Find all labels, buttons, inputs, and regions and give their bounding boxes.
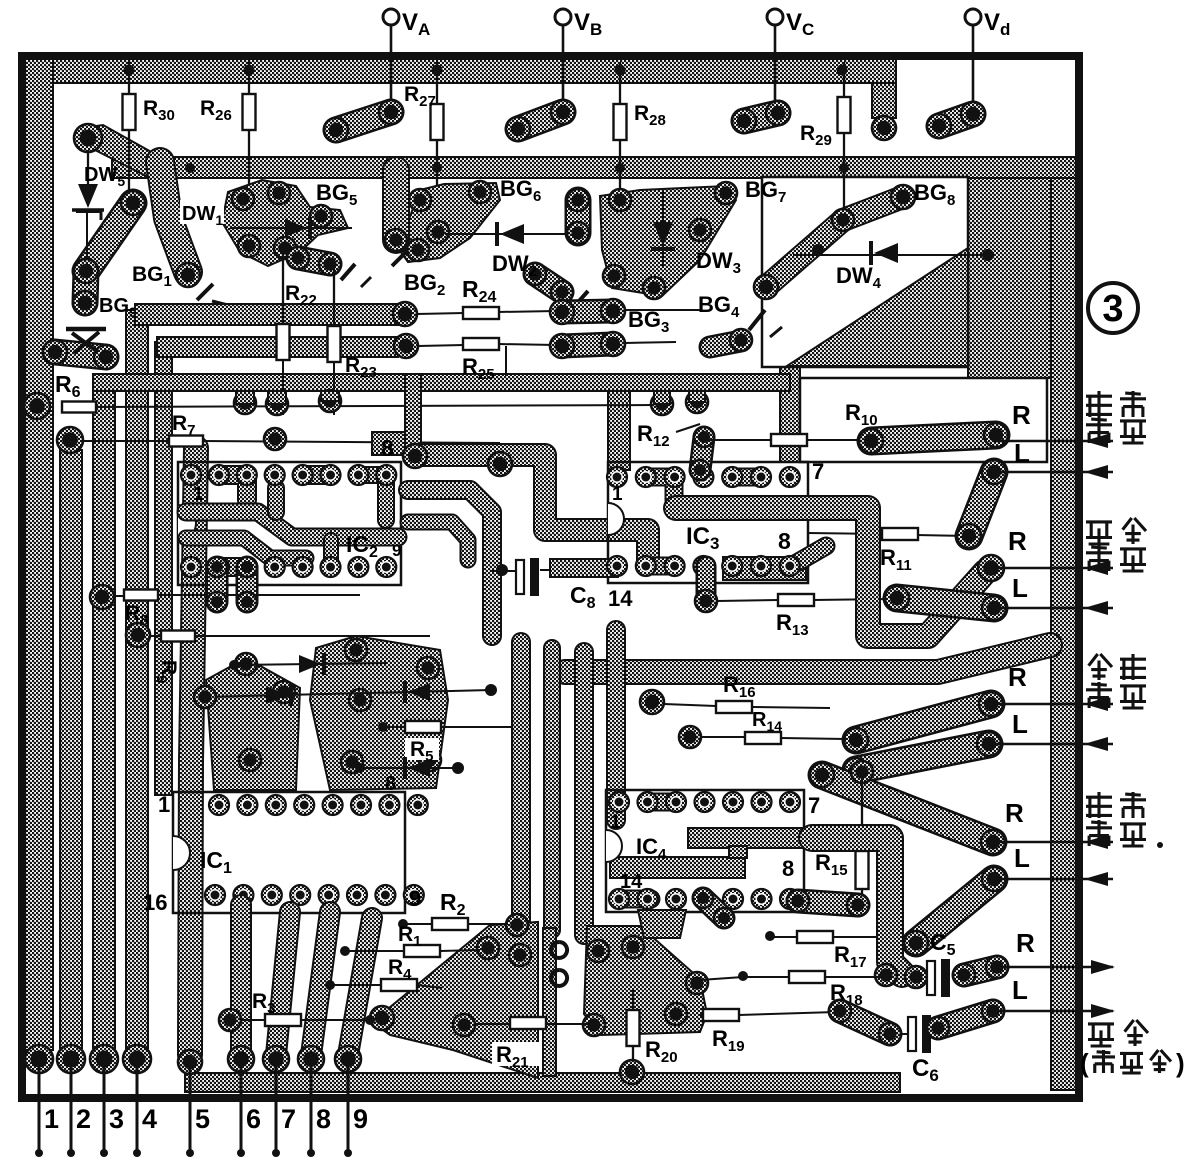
- diode DW1 symbol: [230, 227, 352, 229]
- copper pour bottom-right blob: [584, 926, 707, 1035]
- diode row 2 left: [205, 690, 491, 697]
- node pad R7 mid: [264, 428, 286, 450]
- wire stub traces above IC2: [236, 391, 254, 404]
- wire dog-bone row B right: [562, 344, 613, 346]
- wire input arrow record L: [994, 465, 1113, 479]
- wire bus pin2 vertical: [60, 450, 82, 1048]
- svg-text:4: 4: [142, 1104, 157, 1134]
- node pads on power rail: [185, 163, 195, 173]
- resistor R11: [808, 533, 884, 534]
- wire wide column right of IC2: [405, 374, 421, 457]
- wire ground band step-down at right end: [872, 83, 896, 118]
- wire rail column down to IC3 pin1: [608, 391, 630, 470]
- svg-text:8: 8: [778, 528, 791, 554]
- svg-text:14: 14: [608, 586, 633, 611]
- node pads above IC2: [234, 392, 256, 414]
- wire rail diagonal from pad to band: [82, 125, 162, 177]
- node pads in left pour: [370, 1006, 394, 1030]
- wire rail row A: [135, 304, 398, 325]
- label DW1: [180, 200, 224, 224]
- op-amp IC1 top pads: [209, 795, 229, 815]
- resistor R29: [838, 97, 851, 133]
- svg-text:L: L: [1014, 843, 1030, 873]
- resistor R4: [330, 984, 381, 986]
- wire IC2 stub pad11: [323, 540, 339, 562]
- wire trace C8 to IC3 pin14: [550, 559, 618, 577]
- node pad R6 on ground band: [24, 393, 50, 419]
- wire dog-bone phono L: [916, 879, 994, 943]
- wire bus mid vertical: [155, 342, 172, 795]
- wire bus pin4 vertical: [126, 310, 148, 1048]
- wire dog-bone VA: [336, 112, 391, 130]
- wire rail row B: [157, 337, 398, 357]
- capacitor C6: [908, 1015, 931, 1053]
- wire stubs above IC3: [654, 391, 670, 404]
- resistor R21: [476, 1023, 510, 1025]
- node pads in BG5 blob: [409, 189, 431, 211]
- node pads in left blob: [235, 653, 257, 675]
- node pads in BG7 blob: [609, 189, 631, 211]
- resistor R27: [431, 104, 444, 140]
- svg-text:9: 9: [409, 886, 421, 911]
- wire dog-bone below R15: [798, 901, 858, 905]
- wire input arrow phono R: [993, 835, 1113, 849]
- svg-text:2: 2: [76, 1104, 91, 1134]
- svg-text:1: 1: [44, 1104, 59, 1134]
- copper pour right blob above IC1: [310, 636, 448, 790]
- svg-text:9: 9: [392, 541, 401, 560]
- svg-text:L: L: [1012, 975, 1028, 1005]
- white component box around BG8/DW4: [762, 177, 968, 367]
- wire elbow trace IC3 to AM-R pad: [676, 508, 985, 636]
- svg-text:L: L: [1012, 709, 1028, 739]
- label AM input (Chinese): [1086, 522, 1112, 544]
- node pads in DW1 blob: [232, 188, 254, 210]
- svg-text:R: R: [1008, 526, 1027, 556]
- wire dog-bone row A right: [562, 311, 613, 312]
- wire thick R7 trace: [372, 432, 420, 455]
- transistor BG3 symbol: [572, 291, 588, 309]
- diode row 1: [234, 663, 388, 665]
- resistor R3: [225, 1019, 266, 1021]
- node pad BG1 right: [176, 263, 200, 287]
- label output (Chinese): [1088, 1024, 1114, 1046]
- wire center column 4: [606, 630, 626, 820]
- node pads in right pour: [587, 940, 609, 962]
- wire center column 1: [511, 642, 531, 920]
- resistor R1: [345, 950, 405, 952]
- node pads at C5 elbow: [875, 964, 897, 986]
- svg-text:7: 7: [281, 1104, 296, 1134]
- wire IC3 pin8 diagonal: [793, 546, 826, 565]
- wire dog-bone record R: [871, 435, 996, 441]
- resistor R10: [706, 439, 772, 441]
- svg-text:8: 8: [381, 435, 394, 461]
- diode DW3 symbol: [662, 192, 664, 268]
- wire dog-bone R12: [700, 437, 704, 470]
- wire dog-bone BG1: [86, 203, 133, 271]
- resistor R24: [417, 313, 464, 314]
- wire dog-bone record L: [969, 472, 994, 536]
- transistor BG2 tick: [341, 264, 355, 280]
- wire dog-bone R16 left: [640, 690, 664, 714]
- resistor R25: [418, 345, 464, 346]
- wire dog-bone BG4 link: [710, 341, 741, 347]
- node pad bus2 top: [57, 427, 83, 453]
- op-amp IC2 top pads: [181, 465, 201, 485]
- wire dog-bone output R: [964, 967, 997, 975]
- wire output arrow L: [993, 1004, 1115, 1018]
- resistor R8: [124, 590, 158, 601]
- wire IC2 staircase trace 1: [186, 512, 398, 537]
- power rail band VB-VD (horizontal): [112, 157, 1076, 178]
- resistor R23: [328, 326, 341, 362]
- label 3 in circle: [1088, 283, 1138, 333]
- svg-text:1: 1: [610, 812, 621, 833]
- wire horizontal trace to right bus: [565, 645, 1050, 672]
- svg-text:8: 8: [316, 1104, 331, 1134]
- svg-text:1: 1: [158, 792, 170, 817]
- op-amp IC4 top pads: [609, 792, 629, 812]
- svg-text:6: 6: [246, 1104, 261, 1134]
- op-amp IC3 outline: [608, 462, 808, 583]
- resistor R28: [614, 104, 627, 140]
- node pads above IC3: [651, 393, 673, 415]
- op-amp IC3 top pads: [607, 467, 627, 487]
- power terminal VA: [383, 9, 399, 113]
- board outline frame: [22, 56, 1079, 1098]
- wire dog-bone BG9 lower: [55, 352, 106, 357]
- wire IC4 top bones: [648, 793, 676, 812]
- resistor R17: [770, 936, 798, 938]
- svg-text:1: 1: [193, 484, 204, 505]
- resistor R19: [700, 1014, 704, 1016]
- node pad R9: [126, 623, 150, 647]
- svg-text:7: 7: [812, 459, 824, 484]
- wire dog-bone FM L: [856, 744, 989, 770]
- wire center column 2: [543, 648, 561, 930]
- svg-text:L: L: [1014, 438, 1030, 468]
- resistor R9: [161, 631, 195, 642]
- wire center column 3: [574, 652, 594, 935]
- power terminal VB: [555, 9, 571, 113]
- wire IC2 staircase trace 2: [186, 538, 306, 558]
- wire column to pin6: [230, 905, 252, 1055]
- copper pour blob below IC4: [638, 910, 686, 938]
- node pad top-left: [74, 124, 102, 152]
- copper pour BG5 blob: [398, 183, 500, 262]
- wire input arrow FM R: [991, 697, 1113, 711]
- wire input arrow record R: [996, 434, 1113, 448]
- resistor R22: [277, 324, 290, 360]
- node pads on ground band: [124, 65, 135, 76]
- wire bones below IC2: [206, 567, 229, 602]
- wire input arrow AM R: [991, 561, 1113, 575]
- transistor BG1 symbol ticks: [197, 284, 213, 300]
- wire board ground ring - top band: [24, 59, 896, 83]
- svg-text:9: 9: [353, 1104, 368, 1134]
- wire vertical drop to BG2: [382, 170, 410, 240]
- diode row 2 right: [405, 681, 430, 703]
- wire snake trace 3: [408, 522, 468, 560]
- wire dog-bone VC: [744, 113, 778, 121]
- wire snake trace 2: [408, 490, 492, 636]
- svg-text:L: L: [1012, 573, 1028, 603]
- node pad pin 5: [178, 1050, 202, 1074]
- transistor BG4 symbol: [749, 310, 765, 330]
- resistor R5: [383, 726, 525, 728]
- svg-text:16: 16: [143, 890, 167, 915]
- wire right vertical bus band: [1051, 178, 1076, 1090]
- copper pour BG7 blob: [600, 186, 736, 296]
- wire bus pin5 vertical: [190, 448, 196, 1055]
- wire slant to pin9: [348, 918, 372, 1055]
- wire IC3 inner traces: [645, 477, 674, 500]
- wire IC2 stub pad4: [267, 488, 285, 512]
- wire input arrow FM L: [989, 737, 1113, 751]
- node pads bottom pins 6-9: [228, 1046, 254, 1072]
- wire dog-bone AM L: [897, 598, 994, 608]
- label record input (Chinese): [1086, 391, 1112, 417]
- resistor R26: [243, 94, 256, 130]
- copper pour DW1 blob: [222, 180, 348, 266]
- wire line pour to R18 row: [700, 977, 743, 980]
- wire dog-bone IC4 pin14: [703, 898, 724, 918]
- op-amp IC2 bottom pads: [181, 557, 201, 577]
- transistor BG2 symbol 2: [392, 250, 408, 266]
- wire slant to pin7: [276, 912, 290, 1055]
- wire IC2 inner traces: [219, 475, 247, 500]
- node pads in right blob: [345, 639, 367, 661]
- power terminal VC: [767, 9, 783, 113]
- wire snake trace 1: [415, 455, 648, 562]
- svg-text:3: 3: [109, 1104, 124, 1134]
- node pad AM R: [978, 555, 1004, 581]
- copper pour bottom-left triangle: [372, 922, 538, 1078]
- wire pin leads: [38, 1062, 41, 1131]
- wire dog-bone output L right: [938, 1011, 993, 1028]
- op-amp IC4 outline: [606, 790, 804, 912]
- diode DW2: [445, 233, 568, 235]
- op-amp IC4 bottom pads: [609, 889, 629, 909]
- wire output arrow R: [997, 960, 1115, 974]
- svg-text:(: (: [1080, 1048, 1089, 1078]
- resistor R7: [169, 436, 203, 447]
- copper pour top-right: [968, 178, 1076, 378]
- wire horizontal rail y=382: [93, 374, 790, 391]
- op-amp IC2 outline: [178, 462, 401, 585]
- copper pour left blob above IC1: [206, 658, 300, 790]
- resistor R16: [664, 704, 716, 706]
- wire slant to pin8: [311, 912, 330, 1055]
- wire input arrow phono L: [994, 872, 1113, 886]
- power terminal VD: [965, 9, 981, 113]
- svg-text:R: R: [1016, 928, 1035, 958]
- node pad R8: [90, 585, 114, 609]
- label FM input (Chinese): [1089, 654, 1112, 680]
- diode row 3: [360, 767, 458, 769]
- wire dog-bone output L left: [840, 1011, 890, 1034]
- resistor R2: [403, 923, 433, 925]
- white box around input pads (top of 录放 area): [800, 378, 1047, 462]
- op-amp IC3 bottom pads: [607, 556, 627, 576]
- capacitor C8: [516, 558, 539, 596]
- transistor BG1 trace from rail: [160, 162, 188, 272]
- resistor R20: [627, 1010, 640, 1046]
- wire dog-bone BG6 vertical: [565, 200, 592, 233]
- wire bus pin3 vertical: [93, 388, 115, 1048]
- copper pour wedge below BG8 box: [787, 248, 968, 366]
- wire elbow trace IC4 to C5: [812, 838, 902, 974]
- resistor R14: [700, 736, 746, 738]
- label phono input (Chinese): [1086, 792, 1112, 818]
- svg-text:1: 1: [612, 484, 623, 505]
- svg-text:14: 14: [620, 871, 643, 893]
- node pads bottom pins 1-4: [25, 1045, 53, 1073]
- resistor R15: [856, 851, 869, 889]
- wire dog-bone BG3 upper: [535, 274, 562, 292]
- capacitor C7 hooks: [551, 942, 567, 986]
- wire dog-bone BG8: [766, 197, 903, 287]
- wire dog-bone VD: [939, 114, 973, 126]
- wire IC3 pins 12-13 bar: [723, 557, 806, 580]
- wire dog-bone BG9 vertical: [85, 271, 86, 303]
- svg-text:8: 8: [782, 856, 794, 881]
- wire strip down from BG4 area: [780, 366, 800, 462]
- resistor R30: [123, 94, 136, 130]
- wire dog-bone VB: [518, 112, 563, 129]
- svg-text:R: R: [1005, 798, 1024, 828]
- diode DW4: [793, 254, 988, 256]
- wire dog-bone phono R: [822, 775, 993, 842]
- wire dog-bone BG2 small: [298, 258, 330, 264]
- wire narrow column to bottom strip: [543, 928, 556, 1076]
- svg-text:R: R: [1008, 662, 1027, 692]
- wire input arrow AM L: [994, 601, 1113, 615]
- svg-text:5: 5: [195, 1104, 210, 1134]
- resistor R13: [696, 566, 717, 601]
- svg-text:): ): [1176, 1048, 1185, 1078]
- op-amp IC1 outline: [173, 792, 405, 913]
- transistor BG9 symbol: [66, 327, 106, 332]
- op-amp IC1 bottom pads: [205, 885, 225, 905]
- wire line down from R25 row: [505, 346, 507, 376]
- wire IC4 inner Z trace: [610, 857, 745, 878]
- capacitor C5: [927, 959, 950, 997]
- wire dog-bone FM R: [856, 704, 991, 740]
- resistor R6: [62, 402, 96, 413]
- svg-text:R: R: [1012, 400, 1031, 430]
- wire bottom ground strip: [185, 1073, 900, 1092]
- wire board ground ring - left band: [24, 59, 53, 1050]
- svg-text:3: 3: [1102, 288, 1123, 330]
- svg-text:7: 7: [808, 793, 820, 818]
- resistor R18: [745, 976, 790, 978]
- diode DW5: [87, 150, 89, 186]
